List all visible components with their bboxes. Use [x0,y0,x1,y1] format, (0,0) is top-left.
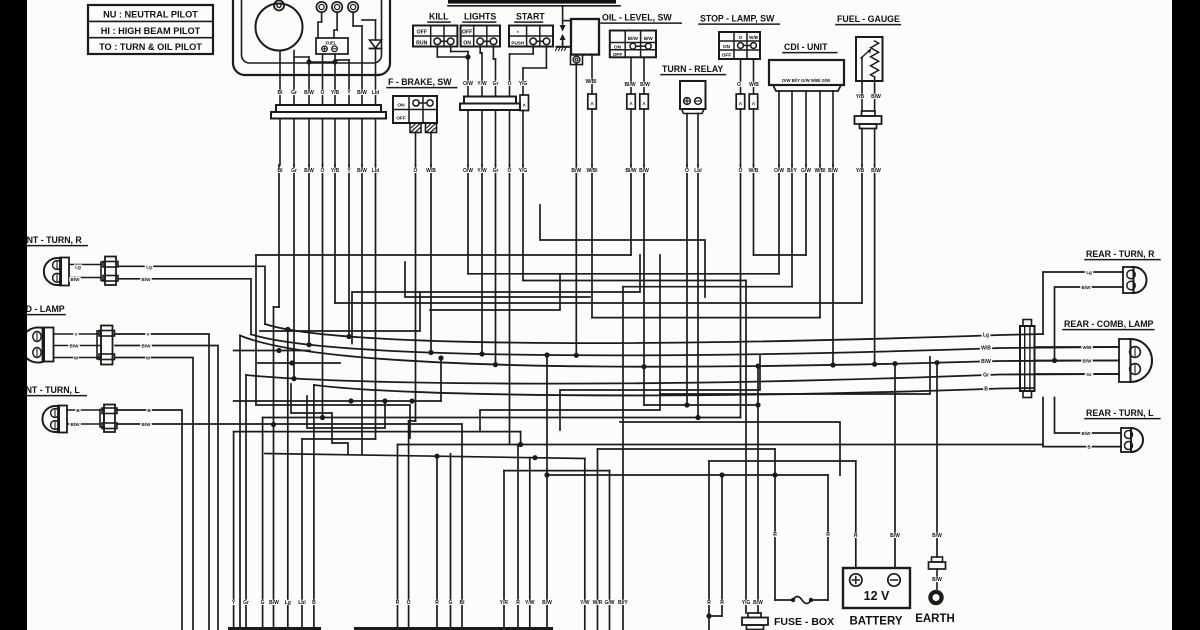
head lamp harness wires [115,334,209,630]
W/B bus wire [251,334,1119,355]
front turn L wires to connector [67,409,100,411]
svg-text:Gr: Gr [1086,372,1092,377]
mesh short segment h363 [258,362,340,364]
svg-text:R: R [854,533,858,539]
svg-text:ON: ON [614,44,622,50]
svg-text:R: R [396,600,400,606]
bottom wire B [313,385,315,627]
wire Y/R [503,471,505,630]
svg-text:Y: Y [74,332,77,337]
stop lamp connectors [736,94,745,109]
mesh wire segment h452 [680,452,900,461]
svg-text:R: R [707,600,711,606]
svg-text:OFF: OFF [613,52,623,58]
svg-text:OIL - LEVEL, SW: OIL - LEVEL, SW [602,13,672,23]
R join at bottom [709,615,722,617]
svg-text:FUEL - GAUGE: FUEL - GAUGE [837,14,900,24]
head lamp [21,328,44,363]
svg-text:START: START [516,12,545,22]
svg-text:OFF: OFF [722,53,732,59]
svg-text:▪: ▪ [517,29,519,35]
svg-text:B/W: B/W [571,168,581,174]
mesh wire segment h345 [335,345,337,410]
svg-text:W/B: W/B [749,168,759,174]
svg-text:Bl/Y: Bl/Y [618,600,628,606]
svg-text:ON: ON [723,44,731,50]
mesh wire segment h262 [405,262,590,297]
diode D1 [375,20,377,40]
rear turn R lamp [1123,267,1134,293]
wire from B/W bus down left [239,336,241,628]
battery 12V [843,568,910,608]
bottom jog Y [234,431,521,433]
svg-text:O/W Bl/Y G/W W/Bl G/W: O/W Bl/Y G/W W/Bl G/W [782,78,831,83]
svg-text:Lg: Lg [285,600,291,606]
relay terminal [571,55,583,65]
svg-text:O: O [407,600,411,606]
svg-text:B/W: B/W [357,90,367,96]
svg-text:Gr: Gr [291,90,297,96]
svg-text:Y/W: Y/W [580,600,590,606]
svg-text:Bl/Y: Bl/Y [787,168,797,174]
svg-text:W/B: W/B [1083,345,1093,350]
svg-text:Y/G: Y/G [519,168,528,174]
svg-text:Bl/W: Bl/W [624,82,635,88]
wire G bottom [450,454,452,630]
Lg bus wire [265,324,1043,343]
svg-text:Y/G: Y/G [742,600,751,606]
svg-text:ON: ON [463,40,471,46]
connector (front turn R) [105,257,116,286]
svg-text:KILL: KILL [429,12,449,22]
svg-text:RUN: RUN [416,40,427,46]
svg-text:W/B: W/B [749,35,759,40]
svg-text:Bl: Bl [278,168,284,174]
wire W/B from brake switch [430,165,432,353]
rear harness connector [1020,326,1035,391]
wire Y/W from switches [481,165,483,354]
svg-text:F - BRAKE, SW: F - BRAKE, SW [388,77,452,87]
wire Lbl from turn relay [697,165,699,418]
svg-text:Bl/W: Bl/W [625,168,636,174]
mesh horizontal y449 [598,448,776,450]
mesh horizontal y470 [504,470,610,472]
svg-text:Gr: Gr [243,600,249,606]
svg-text:PUSH: PUSH [511,40,524,45]
svg-text:W/Bl: W/Bl [814,168,826,174]
indicator lamp TO [348,2,358,12]
svg-text:Lg: Lg [983,333,989,339]
svg-text:B/W: B/W [871,94,881,100]
svg-text:Lg: Lg [1086,270,1092,275]
wire B/W2 from cluster [361,165,363,455]
front turn L harness wires [117,410,182,630]
svg-text:O/W: O/W [463,168,473,174]
svg-text:Gr: Gr [493,168,499,174]
wire B/W from cluster [308,165,310,345]
wire O from turn relay [686,165,688,405]
svg-text:Y/R: Y/R [500,600,509,606]
svg-text:REAR - TURN, L: REAR - TURN, L [1086,408,1154,418]
mesh horizontal y457 [265,454,585,459]
svg-text:Gr: Gr [291,168,297,174]
wire B/W from fuel gauge to bus [874,165,876,364]
indicator lamp HI [332,2,342,12]
bottom component box tops [228,627,321,630]
relay W/Bl connector [588,94,597,109]
svg-text:B/W: B/W [640,82,650,88]
ground (ignition) [562,44,564,47]
svg-text:Bl: Bl [278,90,284,96]
fuel pilot box [316,38,348,54]
mesh wire segment h297b [430,274,560,310]
wire R center2 [517,445,519,630]
svg-text:O: O [321,90,325,96]
wire B/W bottom-center [546,355,548,630]
mesh wire segment h292 [352,255,640,344]
svg-text:Lg: Lg [146,264,152,269]
svg-text:B/W: B/W [357,168,367,174]
svg-text:O: O [739,168,743,174]
fuel gauge wires [861,81,863,111]
svg-text:LIGHTS: LIGHTS [464,12,496,22]
svg-text:Gr: Gr [983,373,989,379]
svg-text:HI : HIGH BEAM PILOT: HI : HIGH BEAM PILOT [101,26,201,36]
svg-text:NU : NEUTRAL PILOT: NU : NEUTRAL PILOT [103,10,198,20]
svg-text:CDI - UNIT: CDI - UNIT [784,42,828,52]
svg-text:Y/B: Y/B [856,168,865,174]
svg-text:O: O [321,168,325,174]
svg-text:Y/W: Y/W [525,600,535,606]
wire W/Bl from relay to CDI [591,165,593,318]
wire Bl/Y from CDI [791,165,793,287]
wire B/W from relay [575,165,577,355]
front turn R lamp [44,258,61,285]
earth terminal connector [932,557,943,562]
B bus wire [314,385,1034,395]
svg-text:Lg: Lg [75,264,81,269]
svg-text:B/W: B/W [142,344,152,349]
turn relay wires [686,114,688,166]
main relay [571,19,599,55]
mesh wire segment h331 [260,292,420,331]
svg-text:W/Bl: W/Bl [585,79,597,85]
wire O from start switch [509,165,511,445]
svg-text:B/W: B/W [753,600,763,606]
rear comb lamp feed wires [1035,346,1120,348]
bottom wire Gr [245,375,247,627]
svg-text:Gr: Gr [493,81,499,87]
rear comb lamp [1119,339,1131,382]
svg-text:B/W: B/W [890,533,900,539]
switch harness wires [467,52,469,97]
svg-text:O: O [685,168,689,174]
svg-text:B/W: B/W [828,168,838,174]
svg-text:O/W: O/W [774,168,784,174]
svg-text:W/B: W/B [749,82,759,88]
svg-text:W/R: W/R [593,600,603,606]
instrument cluster housing [233,0,390,75]
connector (front turn L) [104,405,115,433]
battery plus wire [855,461,857,568]
svg-text:R: R [773,532,777,538]
wire Y from cluster [348,165,350,337]
svg-text:G/W: G/W [605,600,615,606]
speedometer [256,4,303,51]
svg-text:TURN - RELAY: TURN - RELAY [662,64,723,74]
rear turn R wires [1043,272,1123,334]
svg-text:B: B [312,600,316,606]
svg-text:O: O [508,168,512,174]
wire O from brake switch [415,165,417,421]
switch harness connector [464,97,516,104]
wire Y/W bottom [529,458,531,630]
brake switch terminals (hatched) [410,123,421,133]
mesh wire segment h240 [540,205,705,297]
svg-text:OFF: OFF [417,29,427,35]
wire Y/B from cluster to fuel gauge [334,165,336,303]
rear turn L wires [1055,398,1122,434]
svg-text:W: W [146,356,151,361]
svg-text:B/W: B/W [142,422,152,427]
svg-text:Lbl: Lbl [694,168,702,174]
battery minus wire [894,364,896,568]
svg-text:Y/G: Y/G [519,81,528,87]
svg-text:O: O [414,168,418,174]
svg-text:B/W: B/W [932,533,942,539]
svg-text:R: R [826,532,830,538]
mesh wire segment h430 [560,356,760,430]
svg-text:B/W: B/W [304,90,314,96]
mesh wire segment h394 [660,357,930,394]
svg-text:B/W: B/W [1083,359,1093,364]
bottom jog R center [398,444,1044,446]
svg-text:B/W: B/W [71,422,81,427]
svg-text:Y/W: Y/W [477,168,487,174]
wire Gr from switches [495,165,497,365]
front turn R harness wires [119,266,265,324]
Gr bus wire [246,374,1119,384]
cluster wires below connector [279,119,281,166]
svg-text:O: O [737,82,741,88]
svg-text:REAR - COMB, LAMP: REAR - COMB, LAMP [1064,319,1154,329]
svg-text:OFF: OFF [462,29,472,35]
cluster internal wires [279,51,281,106]
svg-text:G: G [261,600,265,606]
wire B/W from CDI to bus [832,165,834,365]
Y/G single connector [520,95,529,111]
svg-text:R: R [435,600,439,606]
relay wires [575,64,577,165]
svg-text:REAR - TURN, R: REAR - TURN, R [1086,249,1155,259]
R loop verticals [721,475,723,616]
svg-text:R: R [516,600,520,606]
wire W/B from stop lamp to CDI G/W [753,165,755,255]
svg-text:G: G [449,600,453,606]
wire Bl/W from oil switch [630,165,632,255]
oil level wires [630,57,632,94]
svg-text:Y: Y [146,332,149,337]
wire name labels overlay [276,90,285,95]
mesh horizontal y475 (R loop) [547,474,828,476]
svg-text:FUEL: FUEL [326,41,337,46]
svg-text:Bl: Bl [460,600,466,606]
title bar (cut off) [448,0,616,4]
mesh wire segment h338 [256,405,410,438]
svg-text:O: O [739,35,743,40]
wire Bl/Y drop [622,602,624,630]
svg-text:BATTERY: BATTERY [849,616,902,628]
svg-text:TO : TURN & OIL PILOT: TO : TURN & OIL PILOT [99,42,202,52]
cluster connector [276,105,381,112]
svg-text:W: W [74,356,79,361]
wire O/W from switches to CDI [467,165,469,274]
brake switch wires [415,133,417,166]
mesh wire segment h410 [480,255,660,432]
mesh short segment h350 [234,350,310,352]
svg-text:B/W: B/W [542,600,552,606]
svg-text:FUSE - BOX: FUSE - BOX [774,616,834,628]
bottom wire Lg [287,329,289,627]
front turn R wires to connector [69,264,101,266]
fuse F1 [775,599,793,601]
staircase segment s428 [307,396,385,428]
mesh wire segment h401 [234,400,441,402]
svg-text:B/W: B/W [1082,285,1092,290]
svg-text:B/W: B/W [304,168,314,174]
rear turn L lamp [1121,428,1131,452]
svg-text:Y/B: Y/B [856,94,865,100]
stop lamp wires [740,59,742,94]
mesh wire segment h310 [300,310,430,370]
connector (head lamp) [101,326,113,365]
svg-text:B/W: B/W [981,359,991,365]
fuse box connector [748,613,761,618]
svg-text:Y/B: Y/B [331,168,340,174]
svg-text:B/W: B/W [70,344,80,349]
wire B/W fuse drop [757,366,759,613]
svg-text:B/W: B/W [142,277,152,282]
svg-text:W/B: W/B [426,168,436,174]
wires below handlebar switches [436,47,438,58]
svg-text:ON: ON [397,103,405,109]
mesh wire segment h465 [270,424,430,465]
B/W bus wire [240,336,1119,367]
svg-text:Y/B: Y/B [331,90,340,96]
wire Y/G from switches to fuse box [522,165,524,281]
svg-text:OFF: OFF [396,116,406,122]
svg-text:Lbl: Lbl [372,90,380,96]
svg-text:R: R [720,600,724,606]
front turn L lamp [42,406,59,432]
wire Lbl from cluster [375,165,377,439]
svg-text:W/Bl: W/Bl [586,168,598,174]
wire O from cluster [322,165,324,418]
svg-text:12 V: 12 V [864,589,890,603]
svg-text:O/W: O/W [463,81,473,87]
svg-text:B/W: B/W [639,168,649,174]
svg-text:B/W: B/W [1082,431,1092,436]
svg-text:B/W: B/W [644,36,654,41]
svg-text:Lbl: Lbl [298,600,306,606]
CDI wires [778,91,780,165]
ignition switch arrows [562,6,564,24]
svg-text:B: B [984,387,988,393]
fuel gauge connector [862,111,876,116]
earth wire [936,363,938,557]
wire Bl from cluster [278,165,280,307]
svg-text:W/B: W/B [981,346,991,352]
svg-text:Lbl: Lbl [372,168,380,174]
svg-text:Y/W: Y/W [477,81,487,87]
svg-text:O: O [508,81,512,87]
oil level connectors [627,94,636,109]
svg-text:B/W: B/W [269,600,279,606]
indicator lamp NU [316,2,326,12]
head lamp wires to connector [54,333,101,335]
legend box NU/HI/TO [88,5,213,54]
wire B/W from oil switch [643,165,645,405]
svg-text:EARTH: EARTH [915,613,955,625]
svg-text:B/W: B/W [932,577,942,583]
svg-text:G/W: G/W [801,168,811,174]
staircase segment s413 [291,384,348,454]
mesh wire segment h422 [620,422,840,475]
earth ring [930,592,941,603]
wire O/stop to mesh [740,165,742,418]
wire Gr from cluster [293,165,295,379]
svg-text:Bl/W: Bl/W [628,36,639,41]
svg-text:B/W: B/W [71,277,81,282]
svg-text:STOP - LAMP, SW: STOP - LAMP, SW [700,14,775,24]
svg-text:B/W: B/W [871,168,881,174]
